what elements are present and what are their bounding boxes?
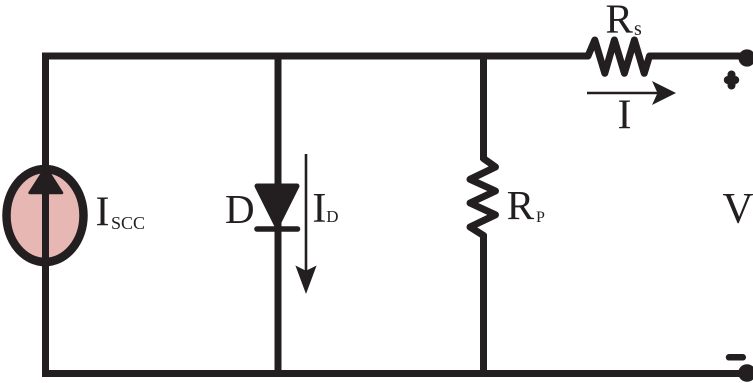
svg-text:R: R	[507, 182, 535, 228]
svg-text:I: I	[618, 93, 632, 139]
wire top bus (right section after Rs)	[649, 53, 742, 60]
arrow Id (diode current)	[305, 154, 308, 272]
svg-text:s: s	[634, 18, 642, 40]
wire diode branch	[275, 53, 282, 378]
current source arrow shaft	[42, 185, 49, 290]
current source Iscc (ellipse)	[7, 169, 84, 262]
svg-text:I: I	[312, 186, 326, 232]
plus sign	[728, 75, 735, 86]
wire top bus (left section)	[42, 53, 588, 60]
resistor Rp	[470, 159, 496, 236]
svg-text:D: D	[326, 207, 338, 226]
diode D	[257, 186, 297, 226]
wire left branch (through current source)	[42, 53, 49, 378]
minus sign	[729, 354, 743, 361]
svg-text:R: R	[606, 0, 634, 42]
terminal dot (+)	[738, 49, 753, 66]
resistor Rs	[588, 40, 650, 73]
svg-text:I: I	[96, 190, 110, 236]
wire bottom bus	[42, 370, 742, 377]
svg-text:P: P	[536, 209, 545, 226]
wire Rp branch (bottom lead)	[480, 234, 487, 377]
diode cathode bar	[257, 226, 298, 232]
svg-text:V: V	[723, 186, 753, 233]
svg-text:SCC: SCC	[111, 213, 145, 233]
wire Rp branch (top lead)	[480, 53, 487, 161]
svg-text:D: D	[225, 186, 255, 232]
arrow I (output current)	[587, 92, 658, 95]
current source arrowhead	[30, 168, 62, 193]
terminal dot (-)	[738, 364, 753, 382]
